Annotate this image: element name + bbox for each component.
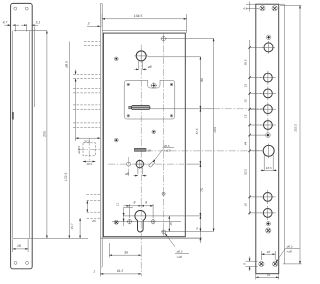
svg-text:⌀8: ⌀8 (125, 172, 129, 176)
svg-text:+⌀8: +⌀8 (287, 250, 293, 254)
screw mid (152, 130, 156, 134)
side plate outline (11, 3, 33, 268)
leader bottom right o6.5 (276, 245, 300, 263)
dim 8 8 above cylinder (124, 200, 154, 218)
screw X left (114, 220, 118, 224)
svg-text:⌀10.5: ⌀10.5 (77, 146, 81, 154)
hole top-right (25, 7, 28, 10)
svg-text:⌀8: ⌀8 (148, 65, 152, 69)
dim 3 faceplate (87, 22, 100, 27)
phillips screw top (266, 35, 271, 40)
svg-text:⌀6.5: ⌀6.5 (164, 144, 170, 148)
svg-text:4.7: 4.7 (3, 21, 8, 25)
dim 26 small (87, 201, 96, 223)
notch screw (151, 82, 157, 88)
hole bottom-left (14, 261, 17, 264)
svg-text:⌀6.5: ⌀6.5 (177, 250, 183, 254)
dim 6 bottom right (196, 226, 200, 243)
leader o6.5 +o8 bottom (165, 233, 189, 258)
svg-text:11: 11 (115, 203, 119, 206)
svg-text:⌀8.5: ⌀8.5 (64, 61, 68, 68)
centerline screws vertical (163, 34, 165, 237)
extension line top (14, 30, 47, 32)
projection centerline to right view (146, 150, 263, 152)
gearbox plate with notch (124, 80, 175, 119)
bolt hole 1 (260, 71, 276, 85)
bottom screw left (259, 261, 264, 266)
svg-text:134.5: 134.5 (134, 14, 143, 18)
screw top (161, 36, 167, 42)
dim 36 bottom (109, 243, 141, 258)
hidden hole pair 5 (87, 211, 101, 213)
svg-text:15: 15 (244, 114, 248, 118)
slanted slot (148, 161, 155, 168)
hidden hole pair 2 (73, 87, 100, 89)
bolt hole 4 (260, 118, 276, 132)
cylinder screw right (150, 219, 155, 224)
hidden hole pair 3b (73, 122, 100, 124)
svg-text:+⌀10: +⌀10 (164, 149, 171, 153)
centerline main vertical (140, 45, 142, 251)
screw left mid (114, 138, 118, 142)
small circle left (127, 162, 131, 166)
hole top-left (14, 7, 17, 10)
svg-text:15: 15 (169, 222, 173, 226)
phillips screw low (266, 221, 270, 225)
svg-text:8: 8 (145, 200, 147, 204)
svg-text:10.5: 10.5 (86, 162, 92, 166)
follower 2 stem (125, 168, 147, 176)
svg-text:252.5: 252.5 (294, 124, 298, 133)
dim 172.5 long vertical (64, 42, 80, 239)
plate corner screw 4 (170, 115, 173, 118)
bolt hole 2 (260, 87, 276, 101)
plate corner screw 3 (127, 115, 130, 118)
dim 134.5 top (102, 14, 187, 31)
dim 18 bottom (13, 239, 28, 252)
faceplate outline (256, 4, 279, 274)
dim line o8.5 (64, 61, 75, 141)
plate corner screw 2 (170, 83, 173, 86)
hidden hole pair 1 (73, 73, 100, 75)
dim 11 left of cylinder (112, 203, 181, 226)
dim 15 right of cylinder (124, 216, 202, 232)
screw left upper (114, 57, 118, 61)
svg-text:26: 26 (91, 219, 96, 223)
hidden spindle square (77, 139, 100, 167)
dim 61.5 bottom (93, 250, 142, 277)
svg-text:44: 44 (244, 142, 248, 146)
svg-text:36: 36 (124, 251, 128, 255)
svg-text:2: 2 (93, 270, 96, 274)
svg-text:75: 75 (200, 188, 204, 192)
extension line bottom (28, 237, 88, 239)
svg-text:31: 31 (267, 273, 271, 277)
cylinder screw left (127, 219, 132, 224)
svg-text:15: 15 (244, 84, 248, 88)
hidden hole pair 4 (87, 194, 101, 196)
case bottom edge (13, 237, 28, 239)
svg-text:52.5: 52.5 (244, 169, 248, 175)
spindle circle (262, 41, 275, 54)
top screw right (272, 6, 277, 11)
svg-text:5.1: 5.1 (36, 21, 41, 25)
hole centerline extensions (14, 24, 16, 32)
svg-text:⌀6.5: ⌀6.5 (287, 245, 293, 249)
dim 4.7 (3, 21, 20, 26)
extension from fixing screw (166, 230, 214, 232)
dim chain right (187, 57, 204, 238)
svg-text:+⌀8: +⌀8 (177, 255, 183, 259)
screw above cylinder (162, 192, 165, 195)
projection line mid (150, 108, 213, 110)
latch slot edge-on (12, 112, 14, 120)
hidden hole pair 3 (73, 104, 100, 106)
svg-text:61.5: 61.5 (117, 269, 124, 273)
dim 8 left bottom (243, 257, 258, 272)
euro cylinder profile (135, 210, 146, 232)
svg-text:18: 18 (267, 250, 271, 254)
follower hub (135, 49, 148, 62)
dim 37.5 (76, 138, 101, 143)
right overall dim (280, 6, 302, 264)
left dimension chain (244, 40, 266, 215)
backplate edge strip (283, 4, 285, 264)
bolt hole 3 (260, 102, 276, 116)
svg-text:15: 15 (244, 99, 248, 103)
extension from follower (148, 56, 201, 58)
svg-text:3: 3 (88, 22, 90, 26)
svg-text:30.5: 30.5 (244, 59, 248, 65)
extension from screw top (166, 37, 214, 39)
bottom screw right (273, 261, 278, 266)
centerline horizontal followers (108, 163, 184, 165)
follower 2 (135, 159, 145, 169)
phillips screw mid (266, 133, 271, 138)
case inner edge right (29, 31, 31, 239)
cylinder fixing screw (161, 229, 166, 234)
svg-text:4.5: 4.5 (243, 7, 248, 11)
svg-text:8: 8 (134, 200, 136, 204)
latch slot (261, 143, 277, 170)
svg-text:86: 86 (200, 78, 204, 82)
leader o6.5 +o10 (153, 144, 174, 163)
plate corner screw 1 (127, 83, 130, 86)
top screw left (260, 6, 265, 11)
svg-text:172.5: 172.5 (64, 173, 68, 182)
dim 205 vertical (43, 31, 47, 239)
bolt hole 6 (260, 206, 276, 220)
lock case box (103, 33, 185, 237)
hidden pair top (84, 41, 100, 43)
svg-text:193: 193 (213, 127, 217, 133)
bottom cap gray (100, 237, 201, 239)
top small dim (243, 2, 259, 12)
slide bar (129, 105, 150, 109)
follower stem (134, 61, 151, 70)
svg-text:16: 16 (147, 148, 151, 152)
X screw low (266, 228, 271, 233)
svg-text:18: 18 (17, 244, 21, 248)
dim 31 bottom (256, 273, 279, 280)
faceplate edge-on (100, 3, 102, 267)
top cap (102, 29, 186, 31)
svg-text:16: 16 (244, 203, 248, 207)
dim 18 bottom screws (261, 250, 275, 260)
hole bottom-right (26, 261, 29, 264)
svg-text:205: 205 (43, 131, 47, 138)
svg-text:57.5: 57.5 (195, 128, 199, 134)
bolt hole 5 (260, 190, 276, 204)
dim 193 right outer (213, 38, 217, 231)
dim 5.1 (21, 21, 40, 107)
case inner edge left (12, 31, 14, 239)
svg-text:15.7: 15.7 (70, 223, 74, 229)
hatched slot (134, 148, 151, 152)
svg-text:16.5: 16.5 (266, 166, 272, 170)
